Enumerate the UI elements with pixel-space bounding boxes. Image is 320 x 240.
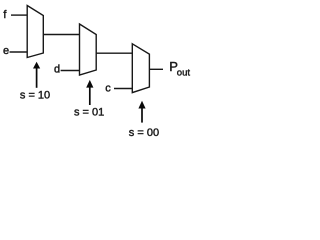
svg-text:e: e [3,45,9,57]
svg-text:s = 10: s = 10 [20,90,50,102]
svg-text:s = 01: s = 01 [74,107,104,119]
svg-text:d: d [54,64,60,76]
svg-text:s = 00: s = 00 [129,127,159,139]
svg-text:out: out [177,67,191,78]
svg-text:c: c [105,83,111,95]
